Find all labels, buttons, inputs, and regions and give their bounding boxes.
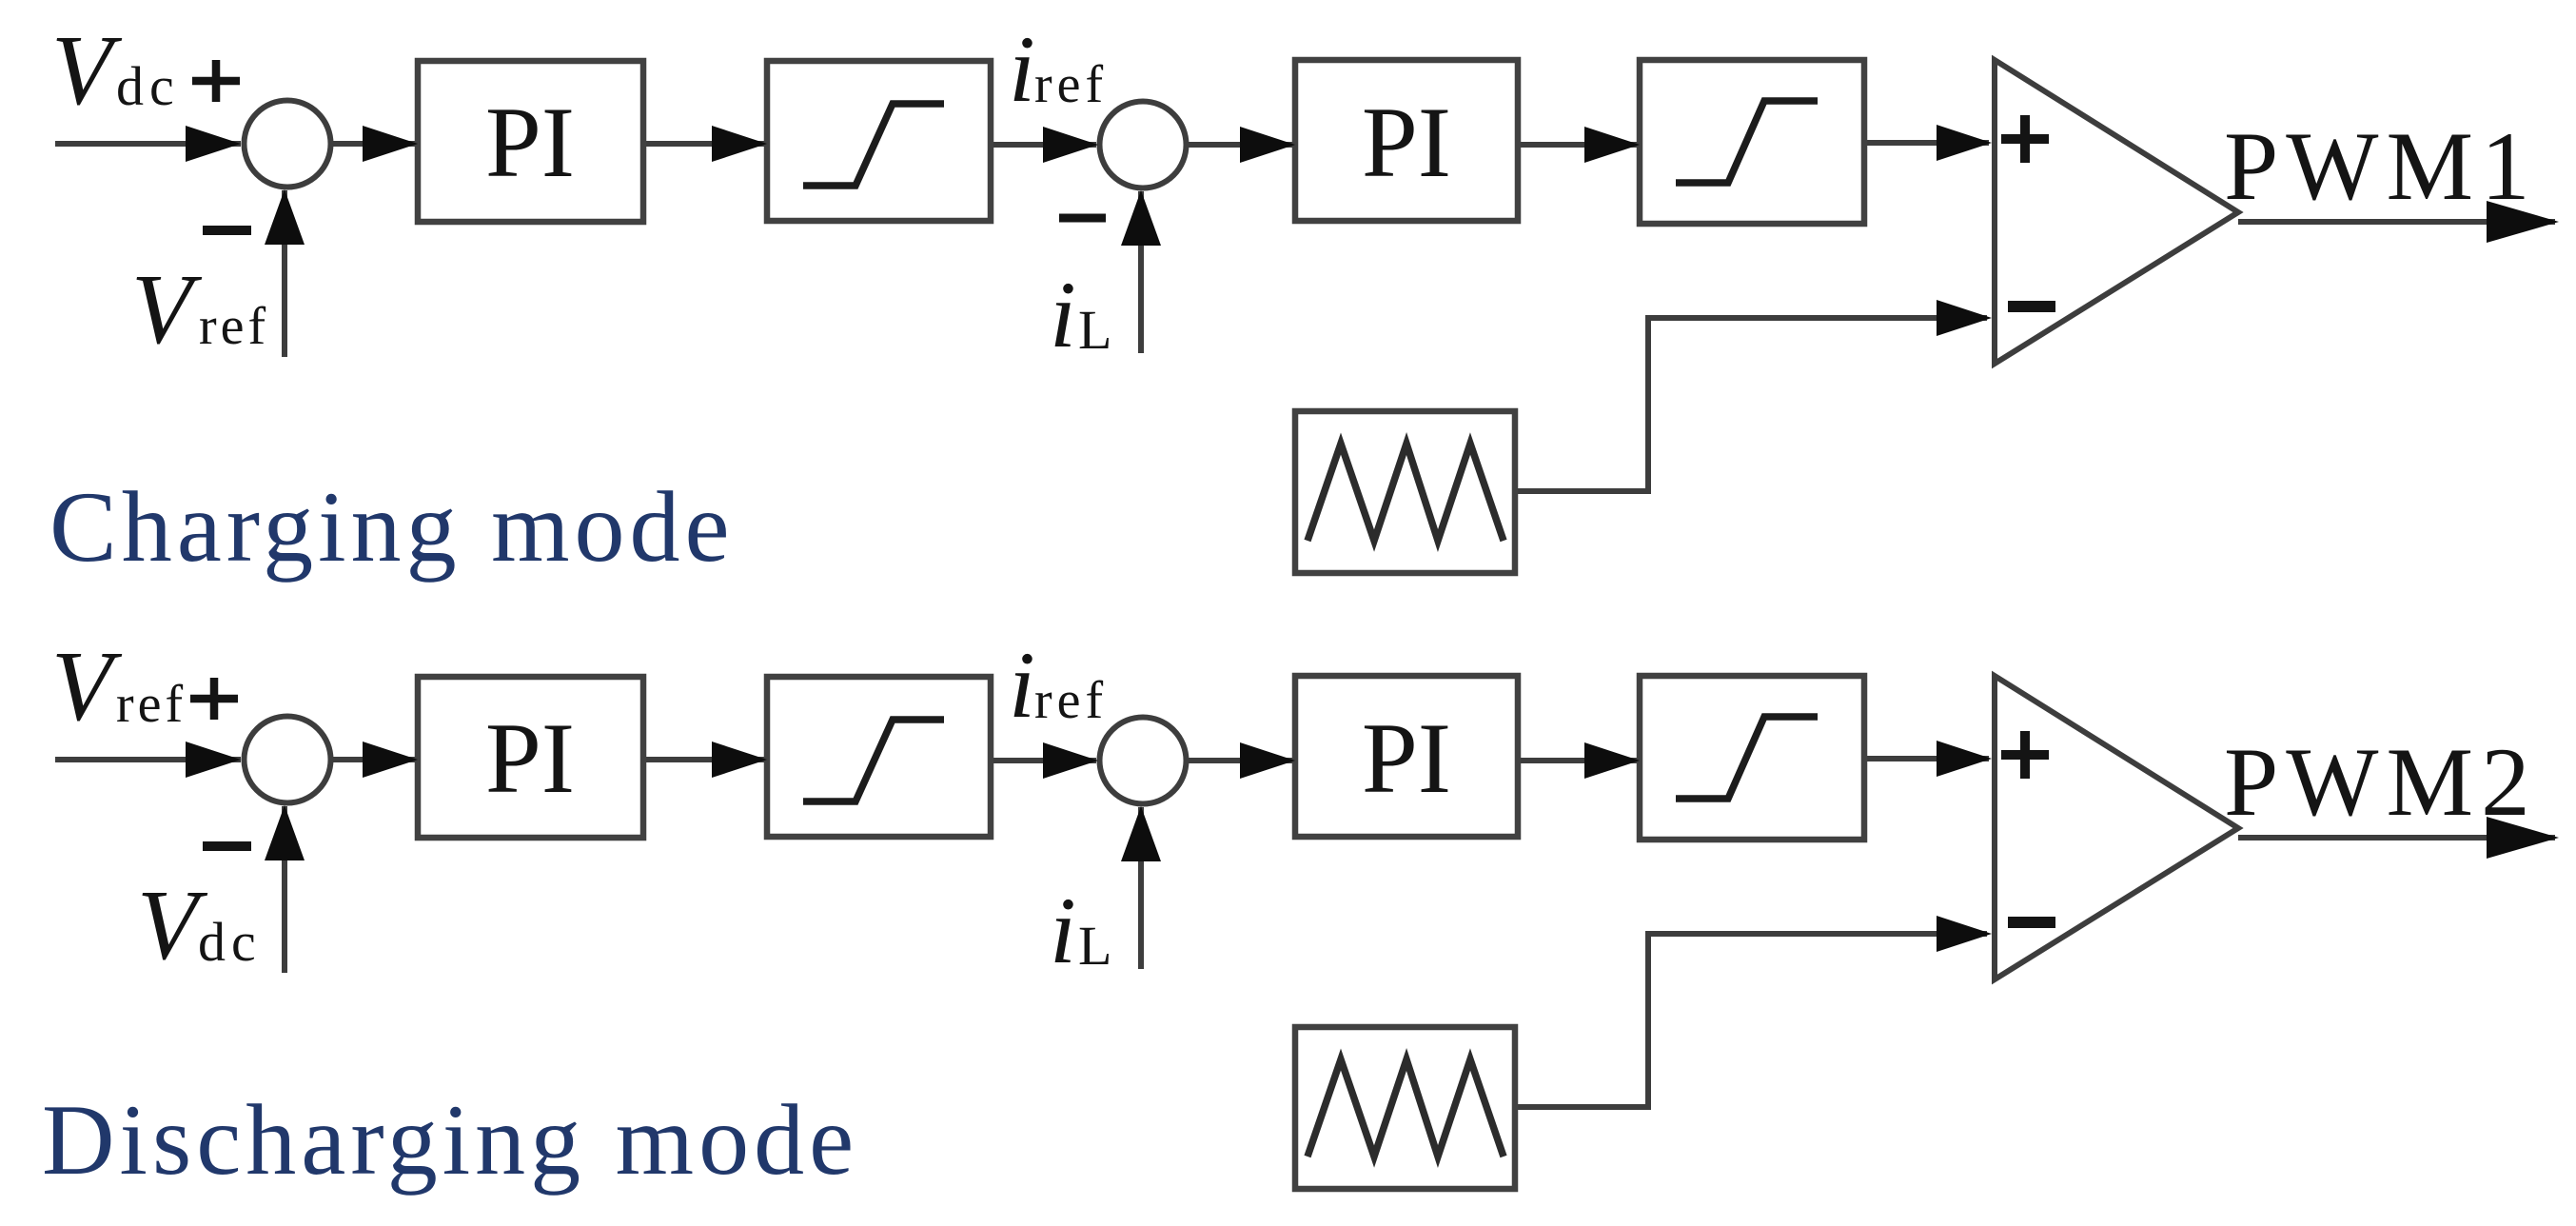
svg-text:dc: dc <box>116 55 180 117</box>
svg-text:PI: PI <box>1362 702 1451 814</box>
svg-text:ref: ref <box>116 675 187 734</box>
svg-text:PWM1: PWM1 <box>2224 112 2538 221</box>
svg-text:PI: PI <box>485 87 575 198</box>
svg-text:ref: ref <box>1034 55 1108 114</box>
svg-text:V: V <box>51 14 123 126</box>
svg-text:V: V <box>51 630 123 742</box>
svg-text:L: L <box>1078 299 1111 361</box>
svg-text:PI: PI <box>1362 87 1451 198</box>
svg-text:i: i <box>1009 632 1035 738</box>
svg-text:PI: PI <box>485 702 575 814</box>
svg-text:i: i <box>1050 878 1076 983</box>
svg-text:V: V <box>131 253 203 365</box>
svg-text:ref: ref <box>1034 671 1108 730</box>
svg-text:dc: dc <box>198 911 262 973</box>
svg-text:L: L <box>1078 915 1111 977</box>
svg-text:Charging mode: Charging mode <box>49 471 735 583</box>
svg-text:Discharging mode: Discharging mode <box>42 1084 858 1196</box>
svg-text:i: i <box>1009 16 1035 122</box>
svg-text:i: i <box>1050 262 1076 367</box>
svg-text:PWM2: PWM2 <box>2224 728 2538 837</box>
svg-text:ref: ref <box>199 297 269 356</box>
